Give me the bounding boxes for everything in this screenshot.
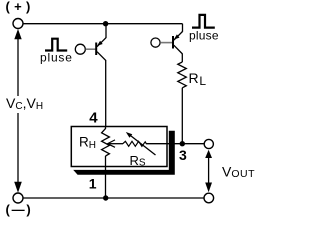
transistor Q2 (PNP) [173, 24, 183, 54]
wire Q2 base lead [160, 42, 172, 44]
input terminal circle left [75, 44, 85, 54]
voltage arrow VC,VH upper segment [14, 29, 21, 96]
variable arrow over RS [126, 132, 156, 155]
wire Q1 collector to pin 4 [105, 60, 107, 127]
svg-text:4: 4 [89, 110, 98, 127]
wire Q1 base lead [86, 48, 96, 50]
svg-text:(+): (+) [6, 0, 35, 14]
svg-text:1: 1 [89, 176, 97, 192]
node junction pin3 / RL [180, 141, 185, 146]
input terminal circle right [151, 38, 160, 47]
voltage arrow VC,VH lower segment [14, 113, 22, 193]
svg-text:3: 3 [179, 147, 187, 163]
node junction top rail / Q1 emitter [103, 21, 108, 26]
pulse symbol left [45, 39, 67, 51]
svg-text:pluse: pluse [189, 29, 219, 43]
resistor RS zigzag [123, 141, 147, 146]
wire top rail from (+) to Q2 emitter corner [23, 23, 182, 25]
resistor RH zigzag [102, 129, 110, 156]
package box shadow [73, 131, 175, 175]
wire pin4 inside box to RH [105, 127, 107, 130]
arrow VOUT measurement (double headed) [205, 150, 212, 192]
package box outline [71, 127, 167, 167]
terminal (-) circle [13, 193, 23, 203]
wire pin 3 from RS to VOUT terminal [146, 143, 204, 145]
svg-text:pluse: pluse [40, 50, 73, 64]
wire RH bottom lead through pin 1 to bottom rail [105, 156, 107, 198]
node junction bottom rail / pin 1 [103, 195, 108, 200]
wire RL to pin3 node [181, 88, 183, 144]
transistor Q1 (PNP) [96, 24, 106, 61]
wiper arrow from RH tap to RS [108, 140, 124, 147]
svg-text:(—): (—) [6, 202, 33, 217]
terminal (+) circle [13, 19, 23, 29]
pulse symbol right [192, 15, 215, 28]
resistor RL [178, 62, 187, 88]
terminal VOUT bottom circle [204, 193, 214, 203]
wire Q2 collector to RL [181, 54, 183, 62]
terminal VOUT top circle [204, 139, 213, 148]
wire bottom rail [23, 197, 204, 199]
